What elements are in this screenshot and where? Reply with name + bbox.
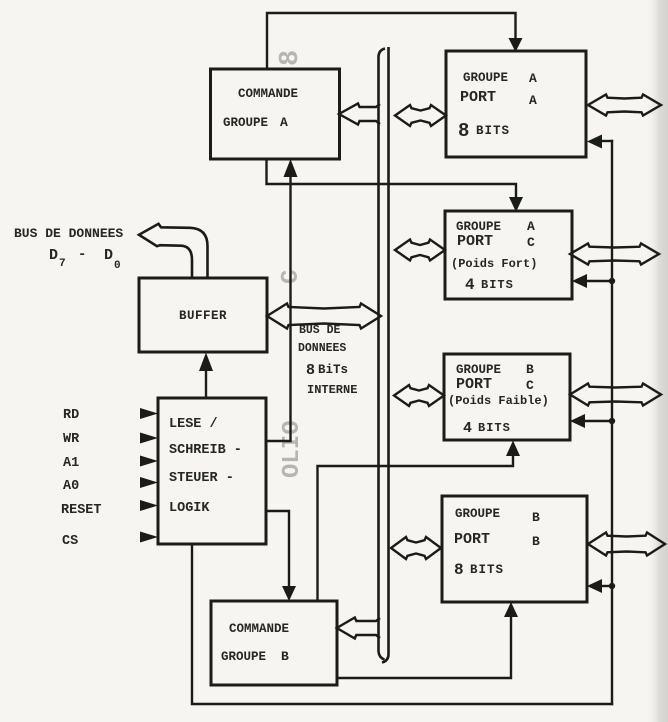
junction dot at PORT C fort stub — [609, 278, 615, 284]
wire: stub into PORT C faible right — [585, 420, 612, 422]
input arrowhead CS — [140, 532, 158, 543]
svg-text:BUS DE: BUS DE — [299, 324, 341, 337]
hollow double arrow BUFFER / bus — [267, 304, 381, 329]
box COMMANDE GROUPE B — [211, 601, 337, 685]
wire: logic bottom feedback line — [192, 544, 612, 704]
svg-text:GROUPE: GROUPE — [223, 116, 268, 130]
svg-text:LOGIK: LOGIK — [169, 501, 210, 516]
input arrowheads into LESE/SCHREIB logic: RD — [140, 408, 158, 419]
junction dot at PORT C faible stub — [609, 418, 615, 424]
text: BUS DE DONNEES 8 Bits INTERNE (internal bus label) — [298, 324, 357, 397]
faint bleed-through glyphs — [276, 50, 306, 478]
svg-text:CS: CS — [62, 534, 78, 549]
hollow left arrow bus to COMMANDE B — [337, 618, 380, 639]
box GROUPE B PORT B — [442, 496, 587, 602]
svg-text:C: C — [526, 378, 534, 393]
wire: logic to COMMANDE B — [266, 511, 289, 587]
svg-text:-: - — [78, 247, 86, 263]
hollow double arrow bus / PORT C faible — [394, 385, 444, 406]
svg-text:D: D — [49, 247, 58, 264]
hollow left arrow bus to COMMANDE A — [339, 104, 380, 125]
svg-text:WR: WR — [63, 432, 80, 447]
svg-text:STEUER -: STEUER - — [169, 471, 234, 486]
svg-text:BITS: BITS — [481, 278, 514, 292]
text: GROUPE A PORT C (Poids Fort) 4 BITS — [451, 219, 537, 294]
hollow double arrow bus / PORT C fort — [395, 240, 445, 261]
svg-text:GROUPE: GROUPE — [456, 220, 501, 234]
hollow double arrow PORT B external — [588, 533, 665, 556]
svg-text:7: 7 — [59, 258, 66, 270]
svg-text:B: B — [532, 510, 540, 525]
svg-text:SCHREIB -: SCHREIB - — [169, 443, 242, 458]
svg-text:BITS: BITS — [476, 124, 510, 138]
svg-text:PORT: PORT — [454, 531, 490, 548]
text: GROUPE B PORT C (Poids Faible) 4 BITS — [448, 362, 549, 437]
arrowhead up into PORT B bottom — [504, 602, 518, 617]
text: COMMANDE GROUPE A — [223, 87, 298, 130]
wire: COMMANDE B top to PORT C (faible) bottom — [318, 456, 514, 601]
svg-text:LESE /: LESE / — [169, 417, 218, 432]
wire: stub into PORT C fort right — [587, 280, 612, 282]
wire: logic to BUFFER — [205, 371, 207, 398]
svg-text:B: B — [532, 534, 540, 549]
hollow double arrow bus / PORT A — [395, 105, 446, 126]
svg-text:A0: A0 — [63, 479, 79, 494]
svg-text:COMMANDE: COMMANDE — [238, 87, 298, 101]
arrowhead up into COMMANDE A bottom — [284, 159, 298, 177]
hollow double arrow bus / PORT B — [391, 537, 441, 559]
svg-text:8: 8 — [276, 50, 306, 66]
arrowhead down into PORT C fort top — [509, 197, 523, 212]
svg-text:A: A — [529, 93, 537, 108]
hollow double arrow PORT C faible external — [570, 384, 661, 406]
svg-text:8: 8 — [306, 362, 315, 379]
arrowhead left into PORT B right — [587, 579, 602, 593]
text: pin labels RD WR A1 A0 RESET CS — [61, 408, 102, 549]
hollow double arrow PORT A external — [588, 95, 661, 116]
box COMMANDE GROUPE A — [211, 69, 340, 159]
svg-text:A: A — [529, 71, 537, 86]
svg-text:GROUPE: GROUPE — [463, 71, 508, 85]
svg-text:0: 0 — [114, 260, 121, 272]
text: BUS DE DONNEES D7 - D0 — [14, 226, 123, 272]
svg-text:8: 8 — [458, 120, 469, 142]
wire: right vertical feedback line — [611, 141, 613, 704]
svg-text:BITS: BITS — [470, 563, 504, 577]
input arrowhead A0 — [140, 477, 158, 488]
svg-text:GROUPE: GROUPE — [456, 363, 501, 377]
arrowhead down into PORT A top — [509, 38, 523, 52]
svg-text:INTERNE: INTERNE — [307, 383, 357, 397]
svg-text:(Poids Faible): (Poids Faible) — [448, 394, 549, 408]
wire: logic to COMMANDE A (vertical riser x=290.5) — [266, 176, 291, 441]
box GROUPE A PORT A — [446, 51, 586, 157]
junction dot at PORT B stub — [609, 583, 615, 589]
svg-text:BITS: BITS — [478, 421, 511, 435]
svg-text:C: C — [527, 235, 535, 250]
arrowhead left into PORT C fort right — [572, 274, 587, 288]
wire: COMMANDE A bottom to PORT C (fort) top — [267, 159, 517, 198]
svg-text:B: B — [281, 649, 289, 664]
svg-text:(Poids Fort): (Poids Fort) — [451, 257, 537, 271]
scan edge shadow right — [646, 0, 668, 722]
svg-text:8: 8 — [454, 561, 464, 579]
wire: COMMANDE B to PORT B bottom — [337, 616, 511, 678]
svg-text:COMMANDE: COMMANDE — [229, 622, 289, 636]
svg-text:4: 4 — [465, 276, 475, 294]
box GROUPE A PORT C fort — [445, 211, 572, 299]
arrowhead up into BUFFER bottom — [199, 353, 213, 372]
svg-text:RESET: RESET — [61, 503, 102, 518]
arrowhead up into PORT C faible bottom — [506, 441, 520, 457]
internal data bus (two vertical lines with torn ends) — [379, 47, 389, 663]
text: LESE / SCHREIB - STEUER - LOGIK — [169, 417, 242, 516]
arrowhead left into PORT C faible right — [570, 414, 585, 428]
svg-text:BUS DE DONNEES: BUS DE DONNEES — [14, 226, 123, 241]
svg-text:PORT: PORT — [460, 89, 496, 106]
box LESE/SCHREIB STEUER LOGIK — [158, 398, 266, 544]
arrowhead left into PORT A right — [587, 135, 602, 149]
text: COMMANDE GROUPE B — [221, 622, 289, 664]
svg-text:4: 4 — [463, 420, 472, 437]
text: GROUPE B PORT B 8 BITS — [454, 507, 540, 579]
svg-text:B: B — [526, 362, 534, 377]
input arrowhead A1 — [140, 456, 158, 467]
arrowhead down into COMMANDE B top — [282, 586, 296, 601]
svg-text:GROUPE: GROUPE — [455, 507, 500, 521]
text: GROUPE A PORT A 8 BITS — [458, 71, 537, 142]
hollow double arrow PORT C fort external — [570, 244, 659, 265]
hollow bent arrow BUFFER to external data bus — [139, 224, 208, 278]
svg-text:A: A — [527, 219, 535, 234]
wire: stub into PORT A right — [601, 140, 612, 142]
input arrowhead RESET — [140, 500, 158, 511]
svg-text:RD: RD — [63, 408, 79, 423]
input arrowhead WR — [140, 433, 158, 444]
svg-text:GROUPE: GROUPE — [221, 650, 266, 664]
svg-text:BUFFER: BUFFER — [179, 309, 227, 323]
svg-text:OLIO: OLIO — [279, 420, 306, 478]
svg-text:D: D — [104, 247, 113, 264]
svg-text:PORT: PORT — [456, 376, 492, 393]
box GROUPE B PORT C faible — [444, 354, 570, 440]
box BUFFER — [139, 278, 267, 352]
svg-text:A1: A1 — [63, 456, 79, 471]
wire: COMMANDE A top to PORT A top — [267, 13, 516, 69]
wire: stub into PORT B right — [602, 585, 612, 587]
svg-text:A: A — [280, 115, 288, 130]
svg-text:DONNEES: DONNEES — [298, 342, 346, 355]
svg-text:PORT: PORT — [457, 233, 493, 250]
svg-text:BiTs: BiTs — [318, 363, 348, 377]
